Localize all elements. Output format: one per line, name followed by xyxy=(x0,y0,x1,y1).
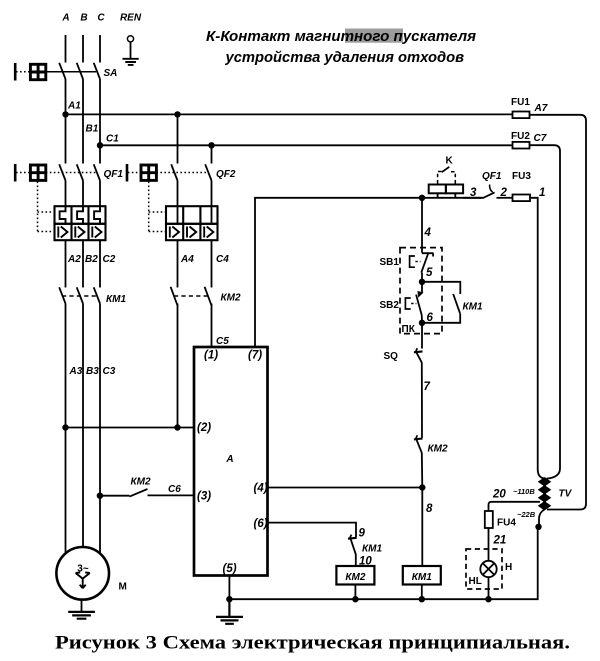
QF1 thermal hook A xyxy=(60,206,66,224)
breaker QF2 blade A xyxy=(171,164,177,180)
ground box A xyxy=(216,599,243,624)
svg-text:Рисунок 3 Схема электрическая: Рисунок 3 Схема электрическая принципиал… xyxy=(55,633,570,654)
breaker QF2 blade C xyxy=(205,164,211,180)
svg-text:устройства удаления отходов: устройства удаления отходов xyxy=(225,49,464,66)
dashed box PK xyxy=(400,248,442,334)
QF1 magnetic chevron A xyxy=(58,227,67,238)
svg-text:SQ: SQ xyxy=(384,351,399,362)
contact K dashed leads xyxy=(438,172,456,184)
switch SA blade A xyxy=(59,63,65,79)
breaker QF1 blade B xyxy=(77,164,83,180)
coil KM1 bus stub xyxy=(421,585,423,600)
wire 22V tap down to dot xyxy=(539,510,545,527)
wire C1 bus to FU2 xyxy=(100,144,513,146)
coil KM2 bus stub xyxy=(354,585,356,600)
svg-text:КМ1: КМ1 xyxy=(106,294,126,305)
wire to pin (2) xyxy=(66,427,195,429)
svg-text:7: 7 xyxy=(424,381,431,393)
svg-text:A4: A4 xyxy=(180,254,194,265)
contact KM1 aux tick xyxy=(350,535,352,539)
svg-text:(5): (5) xyxy=(223,563,237,575)
KM1 dashed linkage xyxy=(62,295,97,297)
wire phase B KM1 to motor xyxy=(82,304,84,548)
fuse FU2 xyxy=(513,142,530,149)
wires QF2 box to KM2 xyxy=(178,240,212,287)
wire phase A KM1 to motor xyxy=(65,304,67,554)
wire pin4 xyxy=(268,487,423,489)
svg-text:ПК: ПК xyxy=(402,324,416,335)
svg-text:C4: C4 xyxy=(216,254,229,265)
svg-text:QF1: QF1 xyxy=(482,171,502,182)
wires QF2 blades to release box xyxy=(178,181,212,207)
TV winding petal 3 xyxy=(539,494,550,502)
QF2 wires through top row xyxy=(178,206,212,224)
svg-text:~110В: ~110В xyxy=(513,487,535,496)
lamp HL cross xyxy=(483,563,494,574)
node dot pin4/wire8 xyxy=(419,484,425,490)
QF1 thermal hook B xyxy=(77,206,83,224)
button SB1 actuator xyxy=(410,256,415,267)
QF1 magnetic chevron C xyxy=(92,227,101,238)
svg-text:КМ1: КМ1 xyxy=(412,572,432,583)
svg-text:КМ1: КМ1 xyxy=(463,302,483,313)
svg-text:~22В: ~22В xyxy=(517,510,536,519)
title highlight smudge xyxy=(345,29,403,43)
contactor KM2 blade C xyxy=(205,287,212,306)
svg-text:Н: Н xyxy=(505,562,512,573)
motor M circle xyxy=(56,547,109,600)
node dot lamp bus xyxy=(485,596,491,602)
control box A xyxy=(194,347,268,576)
node C1 junction dot xyxy=(97,142,103,148)
svg-text:C5: C5 xyxy=(216,336,229,347)
wire C6 left segment xyxy=(100,495,130,497)
SB2 dashed link xyxy=(411,303,416,305)
node dot QF2 pole / pin2 wire xyxy=(174,424,180,430)
dotted link to QF2 box xyxy=(128,172,140,174)
node dot KM2 coil bus xyxy=(352,596,358,602)
wire 4 down to PK box xyxy=(421,198,423,253)
breaker QF1 drive bar xyxy=(14,164,17,182)
dotted link bar to QF1 box xyxy=(16,172,29,174)
transformer TV winding core line xyxy=(543,478,546,510)
svg-text:К-Контакт магнитного пускателя: К-Контакт магнитного пускателя xyxy=(206,28,476,45)
wire SB1 to node5 xyxy=(421,273,423,282)
wire 1: FU3 to transformer top xyxy=(530,198,544,479)
K box stubs xyxy=(438,193,456,198)
svg-text:КМ2: КМ2 xyxy=(131,477,151,488)
svg-text:(1): (1) xyxy=(204,350,218,362)
ground REN xyxy=(123,59,139,65)
svg-text:REN: REN xyxy=(120,13,142,24)
wire motor to ground xyxy=(81,600,83,612)
node QF2 right tap dot xyxy=(208,142,214,148)
node dot KM1 coil bus xyxy=(419,596,425,602)
contact KM2 aux in C6 xyxy=(130,489,148,497)
breaker QF1 blade C xyxy=(94,164,100,180)
svg-text:QF2: QF2 xyxy=(216,169,236,180)
svg-text:QF1: QF1 xyxy=(104,169,124,180)
wires QF1 box to KM1 xyxy=(66,240,101,287)
lamp HL circle xyxy=(480,561,496,577)
K box left xyxy=(429,185,446,194)
contact SQ blade xyxy=(417,353,422,363)
QF1 aux release hook xyxy=(490,185,493,193)
contact K blade xyxy=(442,167,450,172)
QF2 magnetic chevron 3 xyxy=(204,227,213,238)
QF2 dotted linkage line xyxy=(156,172,208,174)
svg-text:3: 3 xyxy=(470,187,477,199)
contact KM1 aux blade xyxy=(351,539,356,555)
svg-text:(7): (7) xyxy=(248,350,262,362)
wire phase B: SA down xyxy=(82,79,84,164)
node dot phase A / pin2 wire xyxy=(62,424,68,430)
wire C6 right segment to pin (3) xyxy=(148,494,195,496)
svg-text:K: K xyxy=(446,156,454,167)
wire FU4 to lamp xyxy=(488,528,490,561)
wire phase C KM1 to motor xyxy=(99,304,101,554)
QF1 drive box xyxy=(30,165,45,180)
contact KM2 aux bar xyxy=(414,437,423,440)
svg-text:FU3: FU3 xyxy=(512,171,531,182)
disconnect SA drive bar xyxy=(14,63,17,81)
QF1 drive dotted drop xyxy=(38,182,55,232)
svg-text:(2): (2) xyxy=(197,422,211,434)
wire REN down xyxy=(130,42,132,59)
KM2 dashed linkage xyxy=(174,295,208,297)
QF2 drive dotted drop xyxy=(149,182,166,232)
svg-text:B: B xyxy=(80,13,87,24)
svg-text:C: C xyxy=(97,13,105,24)
svg-text:C2: C2 xyxy=(103,254,116,265)
wire phase A top stub xyxy=(65,35,67,63)
svg-text:TV: TV xyxy=(559,489,573,500)
node 5 dot xyxy=(419,279,425,285)
wire 7 xyxy=(421,362,423,437)
svg-text:КМ2: КМ2 xyxy=(221,293,241,304)
svg-text:B3: B3 xyxy=(86,366,99,377)
fuse FU4 xyxy=(485,511,493,528)
svg-text:SB1: SB1 xyxy=(380,257,400,268)
contactor KM1 blade A xyxy=(59,287,65,303)
node dot phase C / C6 wire xyxy=(97,493,103,499)
svg-text:A1: A1 xyxy=(67,101,81,112)
wire pin5 down xyxy=(228,576,230,600)
wire 8 xyxy=(421,488,423,567)
svg-text:C1: C1 xyxy=(106,134,119,145)
wire QF2 pole A from A1 bus xyxy=(177,114,179,163)
SA linkage line xyxy=(46,71,96,73)
wire SB2 to node6 xyxy=(421,315,423,322)
node dot 22V tap xyxy=(535,524,541,530)
coil KM1 xyxy=(403,566,441,585)
KM1 holding branch bottom wire xyxy=(422,314,460,323)
svg-text:8: 8 xyxy=(426,503,433,515)
QF2 magnetic release box xyxy=(166,224,218,240)
wire phase A: SA to node A1 xyxy=(65,79,67,114)
contact KM2 aux tick xyxy=(416,435,418,439)
wire phase C top stub xyxy=(99,35,101,63)
QF2 magnetic chevron 1 xyxy=(170,227,179,238)
svg-text:A2: A2 xyxy=(67,254,81,265)
contact SQ bar xyxy=(414,350,423,353)
wires QF1 blades to release box xyxy=(66,181,101,207)
svg-text:FU4: FU4 xyxy=(497,518,516,529)
wire A1 bus to FU1 xyxy=(66,113,513,115)
node 6 dot xyxy=(419,320,425,326)
wire KM2 to node8 xyxy=(421,453,424,488)
node dot pin5 bus xyxy=(226,596,232,602)
wire lamp to bus xyxy=(488,577,490,599)
svg-text:A: A xyxy=(61,13,69,24)
contact SQ tick xyxy=(416,348,418,352)
node QF2 left tap dot xyxy=(174,111,180,117)
wire node6 down to SQ xyxy=(421,323,423,349)
svg-text:(6): (6) xyxy=(254,518,268,530)
bottom bus wire xyxy=(229,527,537,599)
QF1 thermal release box xyxy=(55,206,106,224)
svg-text:1: 1 xyxy=(539,187,545,199)
QF2 drive box xyxy=(141,165,156,180)
svg-text:9: 9 xyxy=(359,528,366,540)
contactor KM1 blade B xyxy=(77,287,83,303)
breaker QF2 drive bar xyxy=(126,164,129,182)
wire phase B top stub xyxy=(82,35,84,63)
button SB1 contact xyxy=(421,253,433,272)
wire pin6 xyxy=(268,523,357,538)
svg-text:М: М xyxy=(119,582,127,593)
QF1 thermal hook C xyxy=(94,206,100,224)
node dot wire4 xyxy=(419,195,425,201)
svg-text:SB2: SB2 xyxy=(380,300,400,311)
fuse FU1 xyxy=(513,112,530,119)
wire to KM2 coil xyxy=(355,555,357,567)
button SB2 blade xyxy=(416,295,422,316)
KM1 holding branch top wire xyxy=(422,282,460,294)
svg-text:HL: HL xyxy=(469,576,482,587)
contact KM1 aux bar xyxy=(348,537,357,540)
switch SA blade C xyxy=(94,63,100,79)
contact KM2 aux blade xyxy=(417,440,422,453)
coil KM2 xyxy=(336,566,374,585)
wire FU1 to right corner, A7 drop xyxy=(530,115,587,510)
svg-text:FU1: FU1 xyxy=(511,97,530,108)
svg-text:SA: SA xyxy=(104,68,118,79)
motor fan symbol xyxy=(76,572,90,588)
dotted link bar to SA box xyxy=(16,71,29,73)
breaker QF1 blade A xyxy=(59,164,65,180)
contact QF1 aux blade xyxy=(483,192,495,198)
svg-text:C6: C6 xyxy=(168,484,181,495)
svg-text:A3: A3 xyxy=(69,366,83,377)
contactor KM1 blade C xyxy=(94,287,100,303)
SB2 blade arrowhead xyxy=(418,292,423,297)
node A1 junction dot xyxy=(62,111,68,117)
K box right xyxy=(446,185,463,194)
svg-text:B1: B1 xyxy=(86,124,99,135)
wire QF1 aux to FU3 xyxy=(497,197,513,199)
svg-text:КМ2: КМ2 xyxy=(428,444,448,455)
svg-text:FU2: FU2 xyxy=(511,131,530,142)
REN terminal circle xyxy=(127,36,133,42)
svg-text:20: 20 xyxy=(492,489,506,501)
svg-text:4: 4 xyxy=(424,227,432,239)
wire QF2 pole C from C1 bus xyxy=(211,145,213,163)
svg-text:B2: B2 xyxy=(85,254,98,265)
wire phase C: SA to node C1 xyxy=(99,79,101,145)
wire phase C: C1 to QF1 xyxy=(99,145,101,163)
wire K to QF1 aux xyxy=(463,197,482,199)
KM1 holding contact blade xyxy=(453,294,460,314)
contactor KM2 blade A xyxy=(171,287,178,306)
wire 20 tap xyxy=(489,502,541,511)
wire KM2 pole A down to pin2 node xyxy=(177,304,179,428)
wire stub below node5 xyxy=(421,282,423,292)
QF2 release box top row xyxy=(166,206,218,224)
switch SA blade B xyxy=(77,63,83,79)
QF1 magnetic chevron B xyxy=(75,227,84,238)
fuse FU3 xyxy=(513,195,531,202)
QF1 dotted linkage line xyxy=(46,172,96,174)
SB1 dashed link xyxy=(415,261,420,263)
svg-text:21: 21 xyxy=(493,535,507,547)
wire KM2 pole C down to box A pin1 xyxy=(211,304,213,348)
dashed box HL xyxy=(466,549,502,589)
svg-text:КМ1: КМ1 xyxy=(362,544,382,555)
SA drive box xyxy=(30,64,45,79)
svg-text:5: 5 xyxy=(426,267,433,279)
QF1 magnetic release box xyxy=(55,224,106,240)
svg-text:(3): (3) xyxy=(197,491,211,503)
wire phase A: A1 to QF1 xyxy=(65,114,67,163)
svg-text:A: A xyxy=(225,454,233,465)
svg-text:C3: C3 xyxy=(103,366,116,377)
TV winding petal 2 xyxy=(539,486,550,494)
svg-text:A7: A7 xyxy=(534,103,548,114)
svg-text:КМ2: КМ2 xyxy=(345,572,365,583)
svg-text:(4): (4) xyxy=(254,483,268,495)
TV winding petal 1 xyxy=(539,478,550,486)
wire FU2 to corner, C7 drop xyxy=(530,145,561,478)
svg-text:C7: C7 xyxy=(534,133,547,144)
wire pin7 up to K line xyxy=(255,198,483,347)
TV winding petal 4 xyxy=(539,502,550,510)
QF2 magnetic chevron 2 xyxy=(187,227,196,238)
ground motor xyxy=(68,612,95,619)
button SB2 actuator xyxy=(405,298,410,309)
